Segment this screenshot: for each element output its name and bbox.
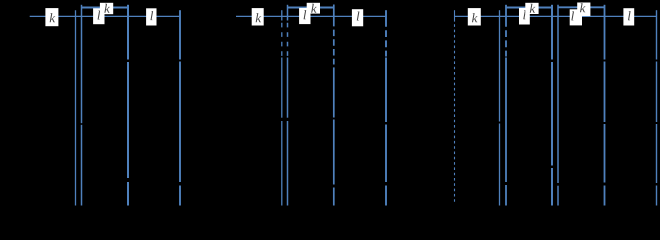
wire: dashed original release line (panel c) <box>454 10 456 19</box>
wire: release-time line r, dashed segment (panel b) <box>281 10 283 20</box>
label l on bracket 2 (panel c) <box>570 9 582 25</box>
wire: bracket 1 top bar (panel c) <box>506 7 553 9</box>
label l on job line (panel c) <box>623 8 634 25</box>
wire: bracket top bar (panel b) <box>288 7 335 9</box>
label k on bracket 2 (panel c) <box>577 3 590 17</box>
wire: bracket right boundary line, dashed segment (panel b) <box>333 5 335 21</box>
wire: deadline line d, dashed segment (panel b) <box>385 10 387 20</box>
label k on job line (panel c) <box>468 8 481 25</box>
label k on bracket (panel a) <box>100 3 113 14</box>
wire: bracket left boundary line, dashed segment (panel b) <box>287 5 289 21</box>
wire: bracket 2 left boundary line (panel c) <box>557 5 559 183</box>
wire: job line for k (panel a) <box>30 15 181 17</box>
wire: release-time line r (panel a) <box>75 10 77 205</box>
label k on job line (panel a) <box>45 8 58 26</box>
label l on bracket 1 (panel c) <box>519 8 530 25</box>
label k on job line (panel b) <box>252 8 264 25</box>
label l on job line (panel b) <box>352 9 363 26</box>
wire: bracket left boundary line (panel a) <box>81 5 83 123</box>
wire: release-time line r (panel c) <box>499 10 501 121</box>
wire: bracket top bar (panel a) <box>82 7 129 9</box>
wire: bracket 2 right boundary line (panel c) <box>604 5 606 60</box>
label l on bracket (panel b) <box>299 8 310 24</box>
wire: bracket 1 left boundary line, dashed segment (panel c) <box>505 5 507 20</box>
wire: bracket 2 top bar (panel c) <box>558 6 605 8</box>
label k on bracket 1 (panel c) <box>525 3 538 14</box>
label l on job line (panel a) <box>146 8 156 25</box>
wire: job line for k extended (panel c) <box>454 15 657 17</box>
wire: deadline line d (panel a) <box>179 10 181 59</box>
wire: bracket 1 right boundary line (panel c) <box>551 5 553 60</box>
wire: deadline line d (panel c) <box>656 10 658 59</box>
label l on bracket (panel a) <box>93 8 104 24</box>
label k on bracket (panel b) <box>307 3 320 14</box>
wire: job line for k (panel b) <box>236 15 387 17</box>
wire: bracket right boundary line (panel a) <box>127 5 129 60</box>
